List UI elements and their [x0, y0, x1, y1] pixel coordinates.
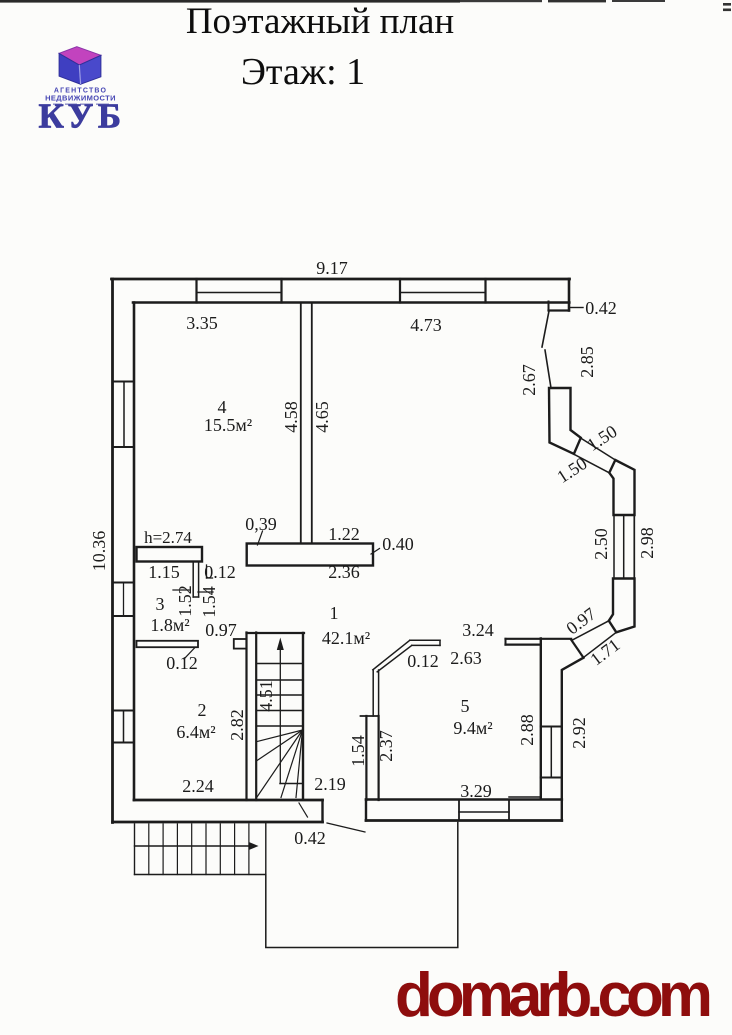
- svg-text:4.51: 4.51: [256, 680, 276, 712]
- svg-text:0.42: 0.42: [585, 298, 617, 318]
- svg-text:1.50: 1.50: [583, 421, 620, 455]
- svg-text:2.36: 2.36: [328, 562, 360, 582]
- svg-text:1.52: 1.52: [175, 585, 195, 617]
- svg-text:1.50: 1.50: [553, 453, 590, 487]
- svg-text:4.65: 4.65: [312, 401, 332, 433]
- svg-text:3.35: 3.35: [186, 313, 218, 333]
- svg-text:0.12: 0.12: [204, 562, 236, 582]
- svg-text:domarb.com: domarb.com: [395, 961, 713, 1030]
- svg-text:1: 1: [330, 603, 339, 623]
- svg-text:1.71: 1.71: [586, 635, 623, 670]
- svg-text:0.97: 0.97: [562, 604, 599, 639]
- svg-text:0.12: 0.12: [166, 653, 198, 673]
- svg-text:2.37: 2.37: [376, 730, 396, 762]
- svg-text:4: 4: [218, 397, 227, 417]
- svg-text:42.1м²: 42.1м²: [322, 628, 370, 648]
- svg-text:9.17: 9.17: [316, 258, 348, 278]
- svg-text:4.73: 4.73: [410, 315, 442, 335]
- svg-text:0.97: 0.97: [205, 620, 237, 640]
- svg-text:Этаж: 1: Этаж: 1: [241, 51, 365, 93]
- svg-text:2.19: 2.19: [314, 774, 346, 794]
- svg-text:1.54: 1.54: [199, 586, 219, 618]
- svg-text:2: 2: [198, 700, 207, 720]
- svg-text:0.42: 0.42: [294, 828, 326, 848]
- svg-text:2.50: 2.50: [591, 528, 611, 560]
- svg-text:1.54: 1.54: [348, 735, 368, 767]
- svg-text:3.29: 3.29: [460, 781, 492, 801]
- svg-text:Поэтажный план: Поэтажный план: [186, 1, 454, 42]
- svg-text:15.5м²: 15.5м²: [204, 415, 252, 435]
- svg-text:1.8м²: 1.8м²: [150, 615, 189, 635]
- svg-text:2.67: 2.67: [519, 364, 539, 396]
- svg-text:6.4м²: 6.4м²: [176, 722, 215, 742]
- svg-text:2.85: 2.85: [577, 346, 597, 378]
- svg-text:1.22: 1.22: [328, 524, 360, 544]
- svg-text:1.15: 1.15: [148, 562, 180, 582]
- svg-text:9.4м²: 9.4м²: [453, 718, 492, 738]
- svg-text:0.40: 0.40: [382, 534, 414, 554]
- svg-text:2.98: 2.98: [637, 527, 657, 559]
- svg-text:0,39: 0,39: [245, 514, 277, 534]
- svg-text:2.92: 2.92: [569, 717, 589, 749]
- svg-text:2.24: 2.24: [182, 776, 214, 796]
- svg-text:5: 5: [461, 696, 470, 716]
- svg-text:h=2.74: h=2.74: [144, 528, 192, 547]
- svg-text:4.58: 4.58: [281, 401, 301, 433]
- svg-text:3.24: 3.24: [462, 620, 494, 640]
- svg-text:2.63: 2.63: [450, 648, 482, 668]
- svg-text:0.12: 0.12: [407, 651, 439, 671]
- svg-text:3: 3: [156, 594, 165, 614]
- svg-text:2.88: 2.88: [517, 714, 537, 746]
- svg-text:10.36: 10.36: [89, 531, 109, 572]
- svg-text:2.82: 2.82: [227, 709, 247, 741]
- svg-text:КУБ: КУБ: [38, 97, 125, 136]
